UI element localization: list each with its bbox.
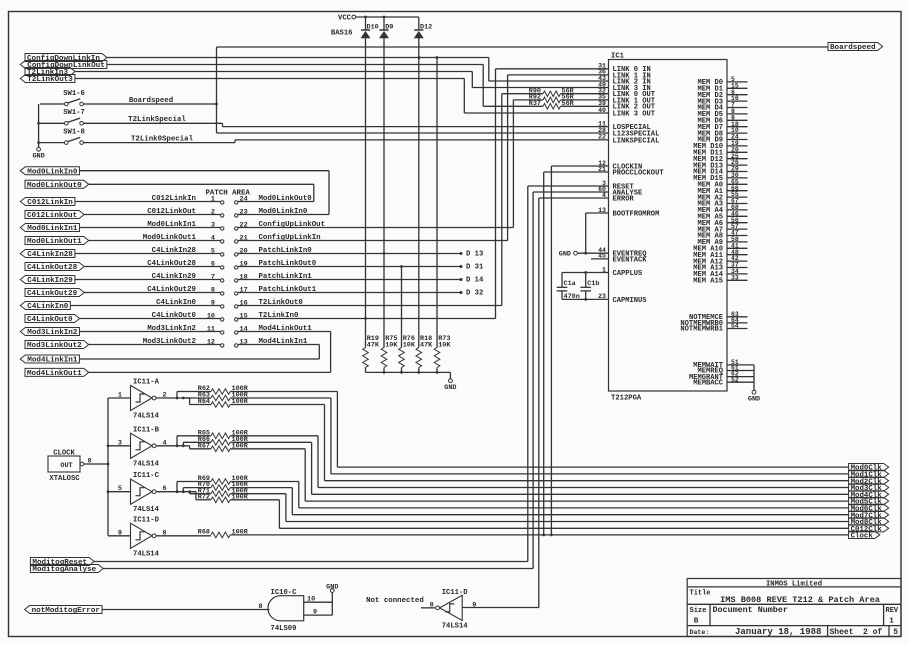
svg-text:IMS B008 REVE T212 & Patch Are: IMS B008 REVE T212 & Patch Area xyxy=(720,595,880,605)
wire patch 24 to Mod0LinkOut0 tag xyxy=(238,201,314,203)
wire R69 to clock bundle xyxy=(230,481,299,483)
svg-text:D10: D10 xyxy=(367,23,379,31)
svg-text:C012LinkOut: C012LinkOut xyxy=(147,208,196,216)
wire patch row 5 left xyxy=(75,253,221,255)
wire patch row 2 left xyxy=(84,214,220,216)
net tag Mod5Clk xyxy=(849,498,889,505)
wire SW1-7 to gnd rail xyxy=(40,122,64,124)
svg-text:GND: GND xyxy=(559,251,571,259)
svg-text:C4LinkIn28: C4LinkIn28 xyxy=(152,247,197,255)
svg-text:BOOTFROMROM: BOOTFROMROM xyxy=(613,210,660,218)
wire T2LinkSpecial xyxy=(83,122,222,124)
wire patch row 11 left xyxy=(79,331,220,333)
svg-text:74LS14: 74LS14 xyxy=(133,460,160,468)
svg-text:GND: GND xyxy=(444,384,456,392)
net tag Mod8Clk xyxy=(849,518,889,525)
wire R73 column xyxy=(436,58,438,348)
wire patch row 7 left xyxy=(75,279,221,281)
switch SW1-8 xyxy=(65,141,69,145)
wire patch 16 T2LinkOut0 xyxy=(238,305,502,307)
inverter IC11-A 74LS14 xyxy=(131,385,153,410)
output junction riser R69 xyxy=(176,482,178,492)
wire patch 13 to Mod4LinkIn1 tag xyxy=(238,344,319,346)
op-amp substitute: IC1 T212PGA body xyxy=(609,60,728,392)
junction BOOTFROMROM/EVENTREQ xyxy=(584,252,587,255)
svg-text:Boardspeed: Boardspeed xyxy=(129,97,173,105)
output junction riser R65 xyxy=(176,436,178,446)
wire patch row 10 left xyxy=(80,318,221,320)
svg-text:Document Number: Document Number xyxy=(713,605,788,615)
inverter IC11-D 74LS14 xyxy=(131,523,153,548)
svg-text:74LS14: 74LS14 xyxy=(133,413,160,421)
svg-text:IC1: IC1 xyxy=(611,53,625,61)
svg-text:C4LinkOut0: C4LinkOut0 xyxy=(152,312,197,320)
diode D9 BAS16 xyxy=(379,29,388,31)
svg-text:9: 9 xyxy=(211,299,215,307)
svg-text:CAPMINUS: CAPMINUS xyxy=(613,297,648,305)
ground xyxy=(449,379,453,383)
svg-text:D 31: D 31 xyxy=(466,264,484,272)
junction R75/PatchLinkIn0 xyxy=(383,252,386,255)
wire Boardspeed to L123SPECIAL xyxy=(217,132,609,134)
patch pin 11 xyxy=(221,331,224,334)
svg-text:8: 8 xyxy=(211,286,215,294)
wire R70 to clock bundle xyxy=(230,487,292,489)
wire IC11-D pin 9 to ERROR riser xyxy=(462,607,539,609)
svg-text:74LS09: 74LS09 xyxy=(271,625,297,633)
wire R92 left lead xyxy=(513,99,543,101)
svg-text:T2LinkSpecial: T2LinkSpecial xyxy=(128,116,186,124)
node D 14 xyxy=(460,278,463,281)
wire patch 22 ConfigUpLinkOut xyxy=(238,227,513,229)
svg-text:C4LinkIn28: C4LinkIn28 xyxy=(27,251,73,259)
wire output IC11-C xyxy=(156,491,196,493)
output junction riser R72 xyxy=(195,492,197,500)
wire R90 left lead xyxy=(502,93,543,95)
svg-text:10K: 10K xyxy=(403,341,416,349)
junction PROCCLOCKOUT/Clock xyxy=(542,534,545,537)
svg-text:R68: R68 xyxy=(198,529,210,537)
svg-text:PROCCLOCKOUT: PROCCLOCKOUT xyxy=(613,169,665,177)
wire patch row 3 left xyxy=(79,227,220,229)
wire T2LinkOut3 to LINK 3 OUT xyxy=(75,78,464,80)
net tag ModitogReset xyxy=(30,558,94,566)
patch pin 21 xyxy=(235,240,238,243)
wire resistor bank to gnd xyxy=(366,371,451,373)
output junction riser R67 xyxy=(189,446,191,449)
svg-text:GND: GND xyxy=(32,153,44,161)
wire patch row 9 left xyxy=(70,305,220,307)
net tag notModitogError xyxy=(25,606,102,614)
resistor R63 100R xyxy=(183,397,211,399)
junction C1b/CAPMINUS xyxy=(584,298,587,301)
svg-text:CAPPLUS: CAPPLUS xyxy=(613,270,644,278)
svg-text:NOTMEMWRB1: NOTMEMWRB1 xyxy=(680,326,723,334)
svg-text:C4LinkIn0: C4LinkIn0 xyxy=(27,303,68,311)
wire patch row to connector D 32 xyxy=(238,292,461,294)
output junction riser R70 xyxy=(182,488,184,492)
svg-text:47K: 47K xyxy=(420,341,433,349)
svg-text:January 18, 1988: January 18, 1988 xyxy=(735,627,821,637)
wire notModitogError xyxy=(102,609,270,611)
wire ModitogReset xyxy=(94,561,528,563)
svg-text:LINK 3 OUT: LINK 3 OUT xyxy=(613,110,656,118)
output junction riser R64 xyxy=(189,398,191,405)
svg-text:C4LinkIn0: C4LinkIn0 xyxy=(156,299,196,307)
svg-text:INMOS Limited: INMOS Limited xyxy=(766,581,822,589)
patch pin 6 xyxy=(221,266,224,269)
wire R76 column xyxy=(401,267,403,348)
VCC rail wire xyxy=(356,16,419,18)
resistor R65 100R xyxy=(177,435,211,437)
wire Boardspeed riser xyxy=(216,47,218,133)
net tag Mod4LinkIn1 xyxy=(20,355,79,363)
wire ANALYSE down xyxy=(533,191,608,193)
wire CLOCKIN down xyxy=(551,165,608,167)
resistor R67 100R xyxy=(190,448,211,450)
wire IC10-C pin 9 xyxy=(304,614,333,616)
svg-text:BAS16: BAS16 xyxy=(331,30,353,38)
wire R63 to clock bundle xyxy=(230,397,331,399)
resistor R64 100R xyxy=(190,404,211,406)
patch pin 23 xyxy=(235,214,238,217)
svg-text:11: 11 xyxy=(207,325,215,333)
svg-text:MEM A15: MEM A15 xyxy=(693,278,723,286)
svg-text:Mod0LinkIn0: Mod0LinkIn0 xyxy=(27,168,78,176)
patch pin 15 xyxy=(235,318,238,321)
wire T2Link0Special xyxy=(83,142,235,144)
svg-text:D12: D12 xyxy=(420,23,432,31)
resistor R66 100R xyxy=(183,441,211,443)
patch pin 4 xyxy=(221,240,224,243)
svg-text:100R: 100R xyxy=(232,529,249,537)
net tag Mod0LinkIn1 xyxy=(20,224,79,232)
wire MEM handshake to gnd xyxy=(753,365,755,390)
patch pin 1 xyxy=(221,201,224,204)
wire R66 to clock bundle xyxy=(230,441,311,443)
svg-text:T212PGA: T212PGA xyxy=(611,395,642,403)
wire patch 14 to Mod4LinkOut1 tag xyxy=(238,331,331,333)
svg-text:8: 8 xyxy=(259,603,263,611)
patch pin 19 xyxy=(235,266,238,269)
wire not connected stub xyxy=(421,607,435,609)
net tag C4LinkOut28 xyxy=(25,263,84,271)
clock distribution bus xyxy=(107,398,109,536)
wire T2LinkOut0 riser to R90 xyxy=(501,94,503,306)
resistor R70 100R xyxy=(183,487,211,489)
wire R62 to clock bundle xyxy=(230,391,337,393)
net tag C012Clk xyxy=(849,525,889,532)
diode D10 BAS16 xyxy=(361,29,370,31)
wire patch row to connector D 14 xyxy=(238,279,461,281)
net tag Mod1Clk xyxy=(849,470,889,477)
net tag Mod3Clk xyxy=(849,484,889,491)
svg-text:R64: R64 xyxy=(198,398,210,406)
wire patch 21 ConfigUpLinkIn xyxy=(238,240,508,242)
node D 13 xyxy=(460,252,463,255)
svg-text:9: 9 xyxy=(313,609,317,617)
svg-text:Mod0LinkOut0: Mod0LinkOut0 xyxy=(27,182,82,190)
net tag T2LinkOut3 xyxy=(20,75,75,83)
svg-text:C4LinkOut0: C4LinkOut0 xyxy=(27,316,73,324)
resistor R72 100R xyxy=(196,499,211,501)
patch pin 18 xyxy=(235,279,238,282)
net tag Boardspeed xyxy=(828,43,883,51)
patch pin 14 xyxy=(235,331,238,334)
svg-text:IC11-B: IC11-B xyxy=(133,426,160,434)
wire patch row 6 left xyxy=(84,266,220,268)
svg-text:GND: GND xyxy=(748,395,760,403)
svg-text:C012LinkIn: C012LinkIn xyxy=(152,195,196,203)
net tag T2LinkIn3 xyxy=(25,68,75,76)
net tag Mod4LinkOut1 xyxy=(25,368,89,376)
gnd rail for switches xyxy=(38,104,40,147)
wire ConfigDownLinkOut to R37 xyxy=(107,64,483,66)
patch pin 9 xyxy=(221,305,224,308)
svg-text:C012LinkOut: C012LinkOut xyxy=(27,212,77,220)
svg-text:40: 40 xyxy=(598,107,606,114)
capacitor C1a 470n xyxy=(561,273,563,288)
svg-text:Mod3LinkOut2: Mod3LinkOut2 xyxy=(27,342,82,350)
svg-text:R67: R67 xyxy=(198,442,210,450)
svg-text:B: B xyxy=(694,618,699,626)
patch pin 24 xyxy=(235,201,238,204)
switch SW1-7 xyxy=(65,122,69,126)
net tag ConfigDownLinkIn xyxy=(25,54,107,62)
patch pin 2 xyxy=(221,214,224,217)
net tag Mod0LinkIn0 xyxy=(20,167,79,175)
patch pin 7 xyxy=(221,279,224,282)
svg-text:Mod0LinkIn1: Mod0LinkIn1 xyxy=(147,221,196,229)
net tag Mod7Clk xyxy=(849,511,889,518)
wire output IC11-A xyxy=(156,397,190,399)
net tag Mod3LinkOut2 xyxy=(25,341,89,349)
patch pin 20 xyxy=(235,253,238,256)
wire R71 to clock bundle xyxy=(230,493,286,495)
net tag Mod4Clk xyxy=(849,491,889,498)
svg-text:IC11-D: IC11-D xyxy=(442,589,469,597)
wire patch row 4 left xyxy=(89,240,221,242)
output junction riser R66 xyxy=(182,442,184,446)
net tag C012LinkOut xyxy=(25,211,84,219)
svg-text:3: 3 xyxy=(211,221,215,229)
ground xyxy=(752,390,756,394)
wire patch row to connector D 31 xyxy=(238,266,461,268)
wire EVENTACK stub xyxy=(591,258,609,260)
patch pin 3 xyxy=(221,227,224,230)
net tag ModitogAnalyse xyxy=(30,565,103,573)
svg-text:Mod3LinkIn2: Mod3LinkIn2 xyxy=(147,325,196,333)
junction R76/PatchLinkOut0 xyxy=(400,265,403,268)
wire patch 15 T2LinkIn0 xyxy=(238,318,496,320)
patch pin 8 xyxy=(221,292,224,295)
AND gate IC10-C 74LS09 (mirrored) xyxy=(268,596,304,621)
wire D9 anode down to R75 xyxy=(383,38,385,348)
svg-text:C4LinkIn29: C4LinkIn29 xyxy=(27,277,73,285)
svg-text:D 32: D 32 xyxy=(466,290,483,298)
svg-text:5: 5 xyxy=(211,247,215,255)
svg-text:OUT: OUT xyxy=(60,462,72,470)
svg-text:ModitogAnalyse: ModitogAnalyse xyxy=(32,566,96,574)
wire ConfigDownLinkIn to LINK 2 IN xyxy=(107,57,489,59)
wire output IC11-B xyxy=(156,445,190,447)
svg-text:Boardspeed: Boardspeed xyxy=(830,44,876,52)
svg-text:10: 10 xyxy=(207,312,215,320)
svg-text:C1a: C1a xyxy=(564,280,576,288)
patch pin 17 xyxy=(235,292,238,295)
wire T2LinkIn0 riser to LINK 0 IN xyxy=(495,69,497,319)
svg-text:47K: 47K xyxy=(367,341,380,349)
patch pin 12 xyxy=(221,344,224,347)
net tag C4LinkIn29 xyxy=(20,276,75,284)
output junction riser R62 xyxy=(176,392,178,399)
oscillator XTALOSC xyxy=(48,456,80,472)
svg-text:33: 33 xyxy=(731,274,739,281)
net tag Mod0Clk xyxy=(849,464,889,471)
junction VCC/D9 xyxy=(383,16,386,19)
svg-text:1: 1 xyxy=(211,195,215,203)
wire R72 to clock bundle xyxy=(230,499,279,501)
svg-text:SW1-6: SW1-6 xyxy=(63,90,85,98)
patch pin 22 xyxy=(235,227,238,230)
net tag Clock xyxy=(849,531,880,538)
patch pin 5 xyxy=(221,253,224,256)
svg-text:D9: D9 xyxy=(385,23,393,31)
svg-text:2 of: 2 of xyxy=(863,628,882,637)
net tag C4LinkIn0 xyxy=(20,302,70,310)
wire VCC to D9 cathode xyxy=(383,17,385,30)
wire R64 to clock bundle xyxy=(230,404,324,406)
svg-text:52: 52 xyxy=(731,376,739,383)
svg-text:Size: Size xyxy=(690,607,707,615)
node D 31 xyxy=(460,265,463,268)
wire input IC11-A xyxy=(108,397,131,399)
svg-text:10: 10 xyxy=(307,596,315,604)
svg-text:C4LinkOut29: C4LinkOut29 xyxy=(147,286,196,294)
wire patch row 1 left xyxy=(75,201,221,203)
resistor R71 100R xyxy=(190,493,211,495)
net tag Mod0LinkOut1 xyxy=(25,237,89,245)
wire patch row 8 left xyxy=(84,292,220,294)
net tag Mod2Clk xyxy=(849,477,889,484)
wire Clock line xyxy=(230,534,848,536)
svg-text:12: 12 xyxy=(207,338,215,346)
wire patch row 12 left xyxy=(89,344,221,346)
wire D12 anode down to R18 xyxy=(418,38,420,348)
patch pin 13 xyxy=(235,344,238,347)
svg-text:C4LinkIn29: C4LinkIn29 xyxy=(152,273,196,281)
svg-text:7: 7 xyxy=(211,273,215,281)
svg-text:Title: Title xyxy=(690,590,711,598)
junction CLOCKIN/Clock xyxy=(550,534,553,537)
svg-text:54: 54 xyxy=(731,323,739,330)
wire Boardspeed xyxy=(83,103,216,105)
resistor R62 100R xyxy=(177,391,211,393)
wire Boardspeed to tag xyxy=(217,46,829,48)
wire VCC to D12 cathode xyxy=(418,17,420,30)
svg-text:Mod4LinkOut1: Mod4LinkOut1 xyxy=(27,370,82,378)
junction D12/R18 on ConfigDownLinkIn xyxy=(418,56,421,59)
net tag ConfigDownLinkOut xyxy=(20,61,107,69)
inverter IC11-C 74LS14 xyxy=(131,479,153,504)
wire D10 anode down to R19 xyxy=(365,38,367,348)
svg-text:CLOCK: CLOCK xyxy=(53,449,75,457)
svg-text:D 13: D 13 xyxy=(466,251,483,259)
svg-text:SW1-8: SW1-8 xyxy=(63,128,85,136)
svg-text:IC11-A: IC11-A xyxy=(133,379,160,387)
node D 32 xyxy=(460,291,463,294)
net tag C4LinkOut0 xyxy=(25,315,80,323)
svg-text:C012LinkIn: C012LinkIn xyxy=(27,199,73,207)
wire CAPMINUS xyxy=(562,298,609,300)
svg-text:C4LinkOut28: C4LinkOut28 xyxy=(147,260,196,268)
wire output IC11-D xyxy=(156,535,211,537)
svg-text:1: 1 xyxy=(889,618,894,626)
svg-text:5: 5 xyxy=(893,628,898,637)
wire T2LinkIn3 to LINK 3 IN xyxy=(75,71,472,73)
svg-text:EVENTACK: EVENTACK xyxy=(613,256,648,264)
svg-text:T2Link0Special: T2Link0Special xyxy=(131,135,194,143)
junction R73 on ConfigDownLinkIn xyxy=(436,56,439,59)
svg-text:D 14: D 14 xyxy=(466,277,484,285)
resistor R69 100R xyxy=(177,481,211,483)
net tag C4LinkOut29 xyxy=(25,289,84,297)
svg-text:74LS14: 74LS14 xyxy=(133,550,160,558)
output junction riser R63 xyxy=(182,397,185,400)
svg-text:IC11-D: IC11-D xyxy=(133,516,160,524)
junction R19/T2LinkIn0 xyxy=(364,317,367,320)
svg-text:10K: 10K xyxy=(385,341,398,349)
wire ERROR down xyxy=(539,197,609,199)
svg-text:Mod4LinkIn1: Mod4LinkIn1 xyxy=(27,357,78,365)
ground xyxy=(37,147,41,151)
svg-text:SW1-7: SW1-7 xyxy=(63,109,85,117)
svg-text:C1b: C1b xyxy=(587,280,599,288)
net tag Mod0LinkOut0 xyxy=(25,180,89,188)
wire ConfigUpLinkOut riser to R92 xyxy=(512,100,514,228)
svg-text:R72: R72 xyxy=(198,493,210,501)
svg-text:IC11-C: IC11-C xyxy=(133,472,160,480)
patch pin 16 xyxy=(235,305,238,308)
net tag C4LinkIn28 xyxy=(20,250,75,258)
wire input IC11-B xyxy=(108,445,131,447)
svg-text:Mod0LinkOut1: Mod0LinkOut1 xyxy=(143,234,197,242)
svg-text:74LS14: 74LS14 xyxy=(442,623,469,631)
svg-text:74LS14: 74LS14 xyxy=(133,506,160,514)
wire ConfigUpLinkIn riser to LINK 1 IN xyxy=(507,75,509,241)
net tag C012LinkIn xyxy=(20,198,75,206)
wire BOOTFROMROM xyxy=(586,212,609,214)
svg-text:VCC: VCC xyxy=(338,15,352,23)
svg-text:Not connected: Not connected xyxy=(366,597,424,605)
svg-text:REV: REV xyxy=(886,607,899,615)
svg-text:Clock: Clock xyxy=(851,533,874,541)
svg-text:Mod3LinkIn2: Mod3LinkIn2 xyxy=(27,329,78,337)
title block xyxy=(687,579,901,637)
wire SW1-6 to gnd rail xyxy=(40,103,64,105)
junction Boardspeed xyxy=(215,103,218,106)
svg-text:4: 4 xyxy=(211,234,215,242)
inverter IC11-D (spare, mirrored) 74LS14 xyxy=(440,595,463,620)
wire clock out xyxy=(84,463,108,465)
wire input IC11-D xyxy=(108,535,131,537)
wire R67 to clock bundle xyxy=(230,448,305,450)
net tag Mod6Clk xyxy=(849,504,889,511)
svg-text:ERROR: ERROR xyxy=(613,195,635,203)
patch pin 10 xyxy=(221,318,224,321)
junction VCC/D10 xyxy=(364,16,367,19)
svg-text:Mod0LinkIn1: Mod0LinkIn1 xyxy=(27,225,78,233)
